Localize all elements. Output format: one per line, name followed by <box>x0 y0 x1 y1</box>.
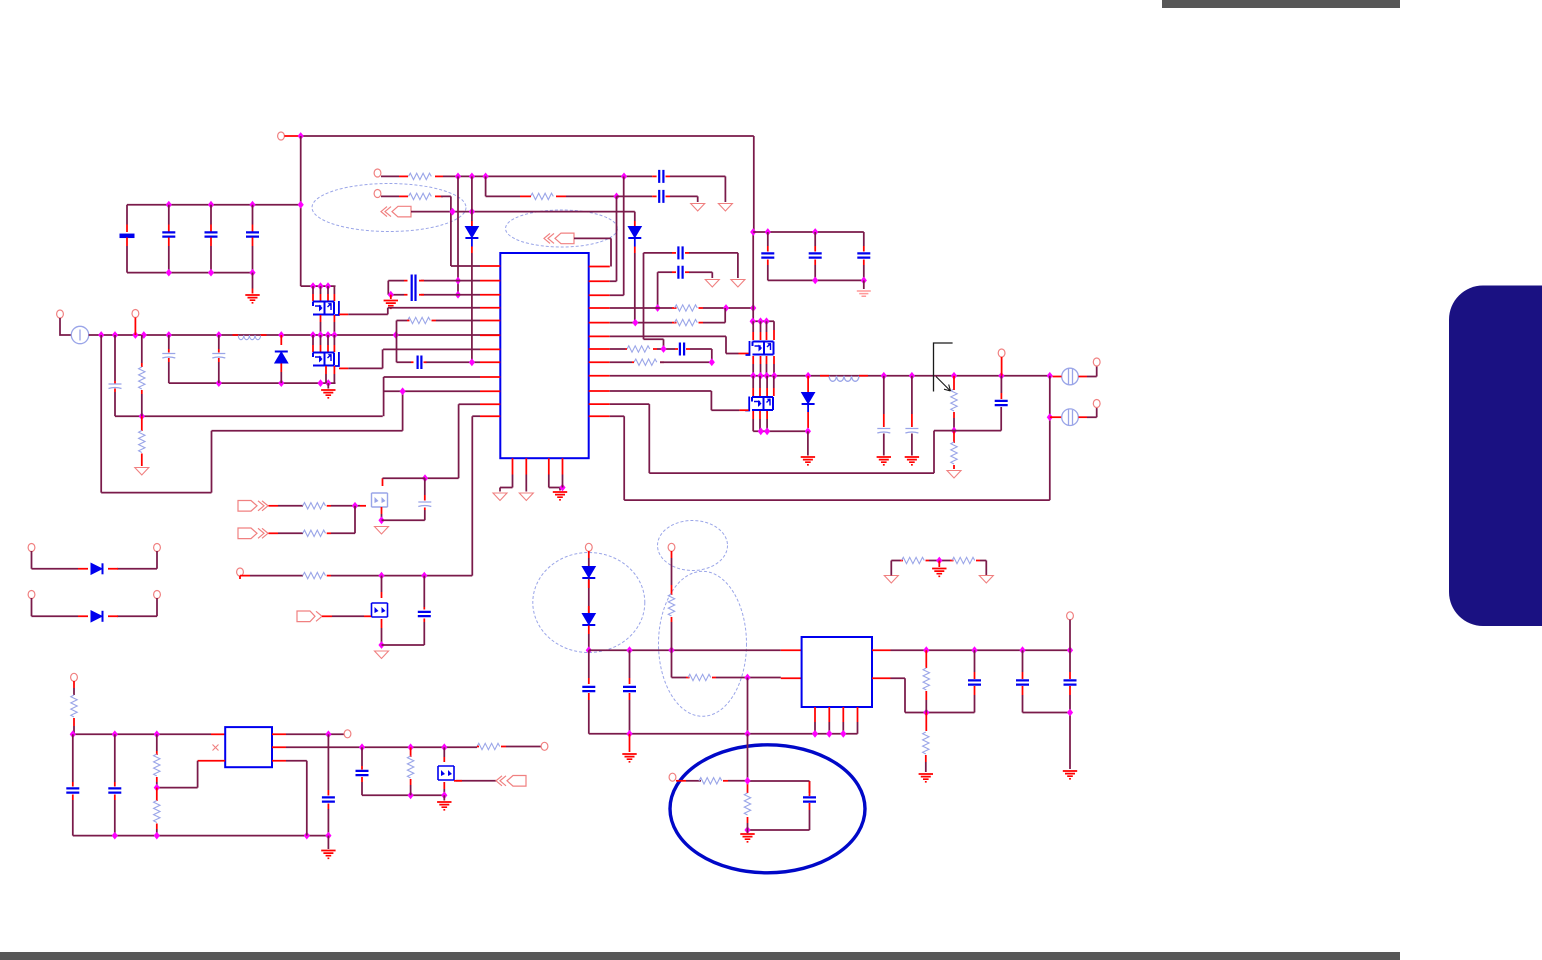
node <box>744 777 750 785</box>
wire <box>753 364 774 376</box>
pin lead C22 <box>809 781 811 810</box>
pin lead C23 <box>974 686 976 695</box>
capacitor C14 <box>680 343 684 356</box>
transistor Q3 <box>753 342 774 355</box>
pin leads C10 <box>404 281 424 295</box>
pin lead C28 <box>327 804 329 810</box>
pin lead <box>863 260 865 266</box>
node rail/drop junction <box>298 132 304 140</box>
highlight circle E3 <box>533 553 645 653</box>
pin lead Q7 <box>443 757 445 762</box>
node <box>758 427 764 435</box>
pin lead R9 <box>626 348 658 350</box>
wire <box>382 510 425 520</box>
pin lead R21 <box>925 650 927 668</box>
wire Q1 drain stubs <box>313 286 336 294</box>
wire <box>436 320 480 322</box>
pin lead Q7 gate <box>454 780 462 782</box>
diode D8 <box>582 614 595 626</box>
node <box>455 277 461 285</box>
node <box>310 331 316 339</box>
pin lead C3 <box>210 238 212 247</box>
wire x753 vertical <box>752 136 755 321</box>
node <box>154 832 160 840</box>
pin lead R11 <box>953 376 955 418</box>
wire U3 sense <box>286 761 307 836</box>
wire <box>549 475 560 491</box>
wire pin11 drop <box>425 404 459 478</box>
node <box>812 730 818 738</box>
capacitor C19 <box>418 612 431 616</box>
resistor R23 <box>71 695 77 717</box>
pin lead U2.2 <box>781 677 802 679</box>
pin lead J4 <box>269 532 279 534</box>
wire <box>141 394 143 416</box>
wire <box>156 829 158 836</box>
wire <box>863 232 865 246</box>
node <box>249 269 255 277</box>
highlight ellipse E1 <box>312 184 466 232</box>
navy side tab <box>1449 286 1542 627</box>
pin lead R17 <box>976 560 980 562</box>
ic U2 <box>802 637 872 707</box>
wire U1 pin11 right drop <box>610 404 650 473</box>
wire ldo vout row <box>286 746 477 748</box>
connector J5 <box>297 611 322 622</box>
pin lead R17 <box>950 560 954 562</box>
pin P_D5b <box>154 544 161 552</box>
inductor L1 <box>829 376 859 382</box>
ground GND1 <box>245 295 259 303</box>
wire <box>703 307 753 309</box>
wire <box>500 475 513 492</box>
wire Q4 gate from U1 pin10 <box>610 391 740 410</box>
ground GND9 <box>740 834 754 842</box>
wire top rail <box>300 135 754 137</box>
pin lead R16 <box>900 560 903 562</box>
pin lead Q6 <box>381 619 383 628</box>
node <box>655 304 661 312</box>
node <box>621 173 627 181</box>
node <box>750 304 756 312</box>
resistor R14 <box>303 530 326 536</box>
capacitor C20 <box>582 687 595 691</box>
wire U2 bottom joins <box>815 722 858 734</box>
wire cap C26 <box>72 734 74 782</box>
wire row B <box>610 322 672 324</box>
wire <box>589 700 858 734</box>
diode D1 <box>275 352 288 364</box>
node <box>455 291 461 299</box>
node <box>971 646 977 654</box>
node <box>325 331 331 339</box>
wire <box>974 695 976 713</box>
transistor Q4 <box>752 397 773 410</box>
pin lead C20 <box>588 693 590 700</box>
pin P_D6a <box>28 591 35 599</box>
connector J1 <box>381 206 411 217</box>
wire <box>747 830 749 833</box>
wire U2 fb <box>891 678 975 712</box>
resistor R25 <box>154 801 160 823</box>
connector J3 <box>238 501 268 512</box>
wire <box>218 335 220 349</box>
pin P_R18 <box>668 543 675 551</box>
pin lead D8 <box>588 626 590 635</box>
pin P_R20 <box>669 773 676 781</box>
wire Q4 source rail <box>753 430 808 432</box>
pin lead R7 <box>672 307 677 309</box>
pin lead Q4 gate <box>739 409 748 411</box>
wire cap row B <box>658 271 672 273</box>
wire <box>634 239 636 247</box>
wire <box>925 762 927 772</box>
wire <box>168 205 170 225</box>
capacitor C4 <box>246 232 259 236</box>
diode D3 <box>465 227 478 239</box>
node <box>455 173 461 181</box>
wire <box>588 650 590 678</box>
pins U1 bottom <box>513 458 563 474</box>
node <box>408 743 414 751</box>
power ground PG2 <box>718 204 732 212</box>
node <box>139 412 145 420</box>
pin lead C12 <box>672 252 676 254</box>
pin lead C14 <box>686 348 690 350</box>
diode D4 zener <box>802 393 815 405</box>
pin lead C13 <box>672 271 676 273</box>
pin lead D1 <box>280 364 282 373</box>
node <box>632 319 638 327</box>
wire <box>980 561 986 576</box>
wire <box>1000 376 1002 393</box>
wire <box>803 780 810 782</box>
wire <box>252 273 254 289</box>
node <box>750 317 756 325</box>
power ground PG8 <box>519 493 533 501</box>
wire <box>629 734 631 752</box>
node <box>709 358 715 366</box>
wire H478 tie <box>383 477 426 479</box>
capacitor <box>877 429 890 434</box>
pin lead R25 <box>156 824 158 830</box>
wire <box>331 532 355 534</box>
wire <box>689 272 712 278</box>
pin lead C8 <box>666 175 671 177</box>
capacitor <box>905 429 918 434</box>
node <box>310 282 316 290</box>
wire <box>390 295 392 299</box>
wire <box>362 782 444 795</box>
pin lead R6 <box>407 320 436 322</box>
node <box>936 557 942 565</box>
node output row <box>771 372 777 380</box>
pin lead R8 <box>699 322 704 324</box>
wire <box>562 475 564 488</box>
pin P_D6b <box>154 591 161 599</box>
pin lead R16 <box>926 560 930 562</box>
capacitor C23 <box>968 680 981 684</box>
highlight ellipse E5 <box>659 571 747 716</box>
capacitor C bank2 <box>857 253 870 257</box>
capacitor C27 <box>108 788 121 792</box>
diode D5 <box>91 563 103 574</box>
capacitor C13 <box>678 266 682 279</box>
wire <box>381 628 383 645</box>
node <box>298 201 304 209</box>
pin lead C6 <box>168 349 170 353</box>
node <box>378 572 384 580</box>
wire <box>814 265 816 280</box>
pin lead R28 <box>747 781 749 793</box>
pin lead D2 <box>634 221 636 226</box>
node output row <box>757 372 763 380</box>
pin lead C4 <box>252 238 254 247</box>
pin leads Q2 <box>313 345 334 352</box>
node <box>559 484 565 492</box>
wire Q3 rail <box>753 321 775 330</box>
wire <box>911 434 913 456</box>
resistor R6 <box>408 317 431 323</box>
power ground PG12 <box>979 576 993 584</box>
pin lead R3 <box>435 175 443 177</box>
pin lead <box>252 289 254 294</box>
pin lead R21 <box>925 691 927 700</box>
pin lead C18 <box>424 495 426 510</box>
wire <box>157 761 198 788</box>
wire <box>807 431 809 455</box>
wire <box>506 746 541 748</box>
node input row <box>278 331 284 339</box>
wire <box>210 205 212 225</box>
source symbol G1 <box>71 326 88 343</box>
pin lead C23 <box>974 672 976 679</box>
resistor R13 <box>303 503 326 509</box>
resistor R10 <box>634 359 657 365</box>
capacitor C17 <box>995 401 1008 405</box>
node output row <box>881 372 887 380</box>
wire <box>381 576 383 592</box>
ground GND10 <box>919 774 933 782</box>
wire <box>525 475 527 492</box>
node <box>750 228 756 236</box>
wire <box>321 322 335 335</box>
wire <box>1087 407 1097 417</box>
wire pin12 stub <box>472 415 480 417</box>
wire pin7 row <box>383 348 480 350</box>
node <box>441 743 447 751</box>
wire AGND rail <box>115 415 383 417</box>
pin lead C5 <box>114 381 116 384</box>
wire <box>974 650 976 672</box>
wire <box>1001 357 1003 376</box>
node <box>154 730 160 738</box>
wire row 575 <box>331 575 472 577</box>
wire <box>617 195 653 197</box>
wire r3 up <box>610 176 624 295</box>
pins U2 bottom <box>815 707 858 722</box>
wire U2 out rail <box>891 649 1071 651</box>
wire pin4 row <box>388 307 480 309</box>
pin lead R22 <box>925 713 927 732</box>
wire x643 link <box>644 253 664 349</box>
wire <box>588 634 590 641</box>
wire <box>381 195 399 197</box>
wire Q4 drain stubs <box>753 376 774 388</box>
wire <box>747 823 749 830</box>
pin lead R18b <box>671 585 673 595</box>
pin lead <box>767 260 769 266</box>
pin lead R1 <box>141 390 143 394</box>
pin lead C2 <box>168 238 170 247</box>
pin lead T2 <box>1050 416 1062 418</box>
pin lead C25 <box>1069 672 1071 695</box>
pin lead C29 <box>361 766 363 770</box>
pin leads Q3 source <box>753 356 774 364</box>
wire <box>250 575 303 577</box>
wire Q2 drain stubs <box>313 335 334 345</box>
capacitor C bank2 <box>809 253 822 257</box>
wire <box>73 726 211 734</box>
node <box>1067 646 1073 654</box>
pin lead R18a <box>671 551 673 558</box>
wire <box>126 246 128 273</box>
node <box>840 730 846 738</box>
pin lead C5 <box>114 389 116 393</box>
pin lead R13 <box>327 505 331 507</box>
wire <box>883 434 885 456</box>
wire <box>381 175 399 177</box>
wire <box>670 196 698 202</box>
wire <box>114 392 116 416</box>
pin lead R3 <box>399 175 408 177</box>
wire <box>671 558 673 585</box>
highlight ellipse E6 bold <box>670 745 865 873</box>
wire fb drop <box>1049 376 1051 500</box>
pin lead C26 <box>72 795 74 801</box>
wire <box>381 514 383 520</box>
node <box>208 269 214 277</box>
transistor Q1 <box>313 302 334 315</box>
node <box>378 641 384 649</box>
ic U3 <box>225 727 272 767</box>
wire <box>588 579 590 614</box>
transistor Q5 <box>372 493 388 507</box>
wire <box>134 318 136 336</box>
node <box>208 201 214 209</box>
wire <box>278 532 303 534</box>
wire cap loop <box>382 576 425 645</box>
node output row <box>998 372 1004 380</box>
pin lead R26 <box>477 746 506 748</box>
wire vertical to Q1 rail <box>301 136 335 286</box>
wire pin8 cap row <box>397 361 481 363</box>
wire <box>168 246 170 273</box>
node <box>469 173 475 181</box>
pin lead C27 <box>114 782 116 787</box>
resistor R26 <box>477 743 500 749</box>
wire <box>424 478 426 495</box>
node <box>744 826 750 834</box>
pin lead D7b <box>588 580 590 613</box>
transistor Q7 <box>438 766 454 780</box>
resistor R2 <box>139 431 145 453</box>
pin lead C29 <box>361 777 363 782</box>
wire <box>753 419 767 431</box>
wire pin9 row <box>384 376 480 378</box>
capacitor C6 <box>162 354 175 359</box>
pin leads Q4 source <box>753 411 767 419</box>
wire <box>1000 407 1002 431</box>
node <box>317 331 323 339</box>
node <box>812 228 818 236</box>
node input row <box>98 331 104 339</box>
node <box>422 474 428 482</box>
wire output row <box>610 375 1050 377</box>
node <box>723 304 729 312</box>
power ground PG7 <box>493 493 507 501</box>
ground GND8 <box>622 754 636 762</box>
ground GND5 <box>801 457 815 465</box>
pin lead R20a <box>676 780 686 782</box>
resistor R12 <box>951 442 957 464</box>
wire <box>443 795 445 800</box>
node input row <box>112 331 118 339</box>
resistor R4 <box>409 193 432 199</box>
wire <box>218 362 220 383</box>
wire <box>690 349 712 362</box>
pin leads Q3 <box>753 330 774 340</box>
capacitor C8 <box>659 170 663 183</box>
wire row1 <box>443 175 652 177</box>
wire cap bank top rail <box>127 204 301 206</box>
pin lead R4 <box>399 195 408 197</box>
node <box>923 709 929 717</box>
wire <box>747 678 749 734</box>
node <box>408 791 414 799</box>
wire <box>168 362 170 383</box>
pin lead R1 <box>141 363 143 367</box>
bottom footer bar <box>0 952 1400 960</box>
transistor Q2 <box>313 353 334 366</box>
resistor R17 <box>952 557 975 563</box>
pin P_G2 <box>237 568 244 576</box>
wire <box>629 700 631 734</box>
node <box>278 379 284 387</box>
node <box>325 282 331 290</box>
pin lead J3 <box>269 505 279 507</box>
pin lead L1 <box>820 375 868 377</box>
capacitor C11 <box>418 356 422 370</box>
wire <box>686 780 701 782</box>
node <box>923 646 929 654</box>
pin lead R24 <box>156 777 158 782</box>
wire row3 <box>411 212 635 221</box>
pin P_SS <box>374 190 381 198</box>
node <box>441 791 447 799</box>
ground GND4 (pale) <box>857 291 871 296</box>
pin lead D2 <box>634 247 636 254</box>
pin P_D5a <box>28 544 35 552</box>
wire cap C27 <box>114 734 116 782</box>
diode D7 <box>582 567 595 579</box>
wire <box>410 785 412 795</box>
pin lead C3 <box>210 225 212 233</box>
wire <box>814 232 816 246</box>
wire D2 to row B <box>634 253 636 323</box>
node <box>325 730 331 738</box>
wire Q1 gate to U1 <box>348 308 388 315</box>
